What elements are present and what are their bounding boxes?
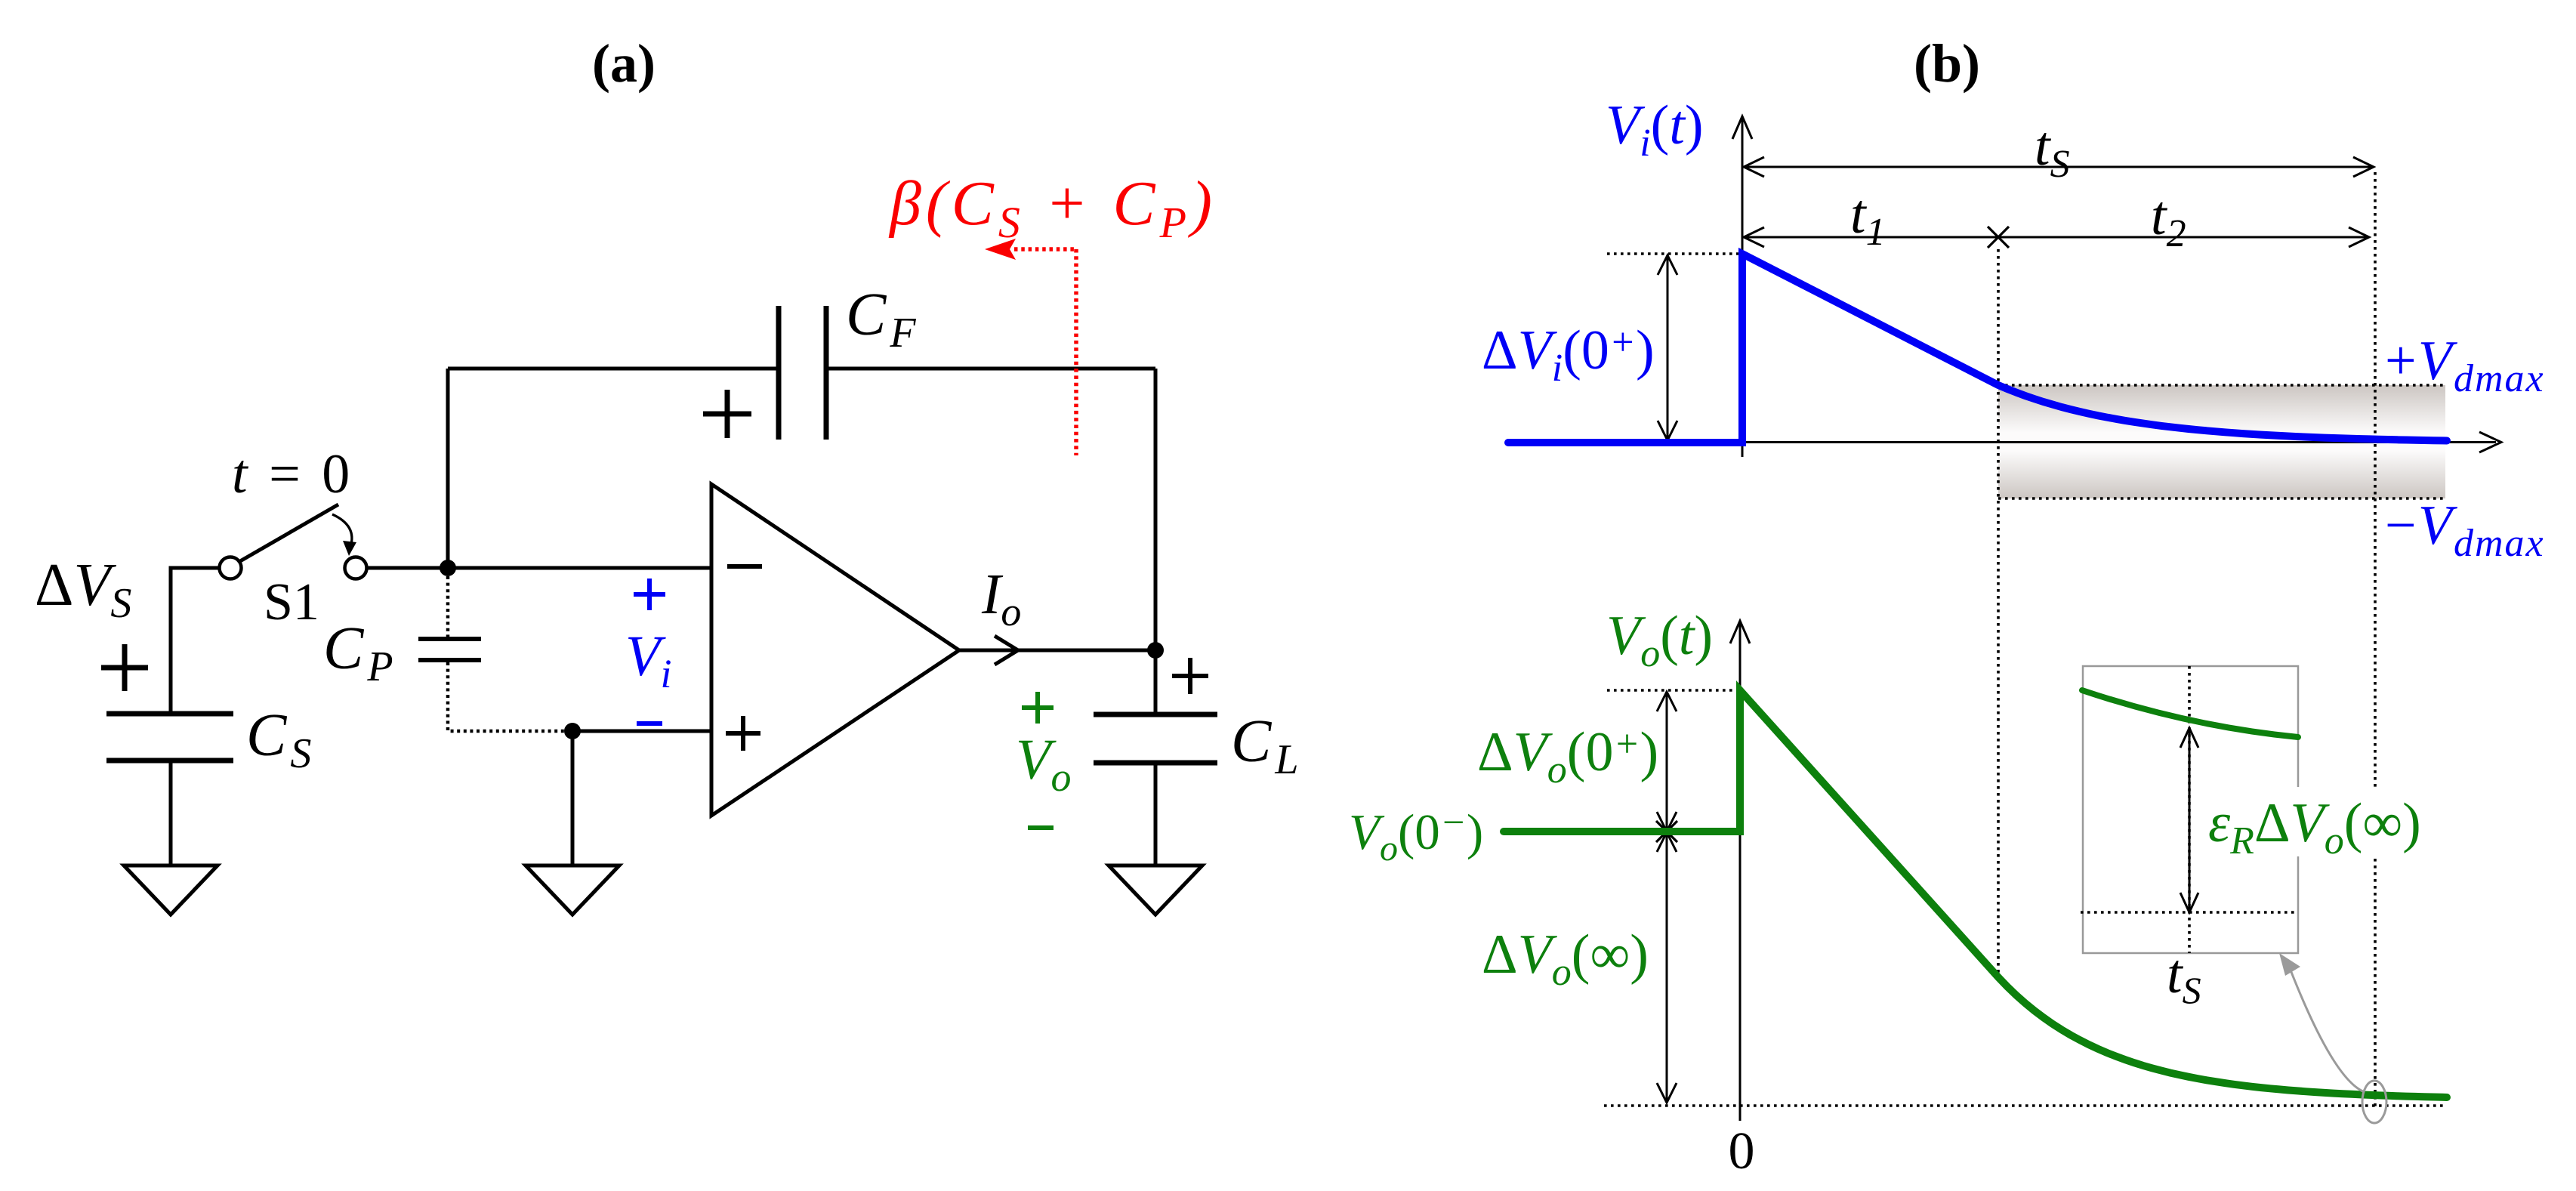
capacitor CP dotted lead top	[446, 576, 450, 637]
feedback top wire with CF	[448, 367, 1155, 371]
svg-text:−Vdmax: −Vdmax	[2385, 495, 2545, 565]
svg-text:ΔVo(0+): ΔVo(0+)	[1477, 721, 1658, 791]
CL plus sign	[1172, 658, 1208, 694]
epsilon label background	[2204, 787, 2427, 856]
svg-text:Vo: Vo	[1016, 728, 1071, 800]
svg-text:CS: CS	[246, 702, 315, 777]
ground under CL	[1109, 865, 1202, 915]
output node dot	[1147, 642, 1164, 659]
CF plus sign	[703, 390, 751, 438]
green waveform	[1504, 690, 2447, 1097]
top y axis	[1741, 119, 1744, 457]
svg-text:Vo(t): Vo(t)	[1606, 605, 1713, 675]
svg-text:(a): (a)	[592, 33, 656, 94]
t1 dimension arrow	[1745, 236, 2368, 239]
switch closing arrow	[332, 514, 352, 547]
blue waveform	[1508, 254, 2447, 443]
switch S1 arm	[240, 504, 338, 561]
capacitor CP plates	[418, 639, 481, 660]
dotted vertical at tS	[2374, 172, 2377, 1109]
svg-text:t = 0: t = 0	[232, 443, 353, 505]
plus sign of source	[101, 644, 148, 691]
svg-text:+Vdmax: +Vdmax	[2385, 330, 2545, 400]
svg-text:Vo(0−): Vo(0−)	[1349, 801, 1483, 869]
feedback right wire down	[1154, 369, 1158, 650]
gray band	[1998, 385, 2445, 498]
svg-text:ΔVo(∞): ΔVo(∞)	[1482, 924, 1649, 994]
op-amp minus input mark	[727, 564, 762, 569]
baseline dotted	[1604, 1104, 2445, 1107]
svg-text:CF: CF	[846, 282, 920, 356]
red dotted arrow	[1014, 249, 1076, 455]
-Vdmax dotted line	[1998, 497, 2445, 500]
svg-text:t2: t2	[2151, 185, 2186, 255]
inset green curve	[2082, 690, 2298, 737]
capacitor CS plates	[106, 714, 233, 761]
ground under node B	[526, 865, 619, 915]
inset box	[2083, 666, 2298, 953]
svg-text:CL: CL	[1231, 708, 1303, 783]
dVi dimension arrow	[1667, 257, 1669, 438]
wire node B to ground	[571, 731, 575, 865]
wire CL to ground	[1154, 763, 1158, 865]
svg-text:Io: Io	[981, 563, 1021, 634]
capacitor CS top wire	[169, 568, 173, 713]
svg-text:t1: t1	[1850, 184, 1886, 254]
inset dotted vertical	[2188, 666, 2191, 953]
ground under CS	[124, 865, 217, 915]
inset dimension arrow	[2189, 730, 2191, 909]
inset dotted horizontal	[2081, 911, 2296, 914]
svg-text:ΔVS: ΔVS	[35, 552, 131, 627]
capacitor CP dotted lead bottom	[448, 662, 564, 731]
svg-text:(b): (b)	[1914, 33, 1980, 94]
svg-text:0: 0	[1729, 1122, 1755, 1180]
svg-text:tS: tS	[2035, 116, 2070, 186]
svg-text:Vi(t): Vi(t)	[1606, 94, 1704, 165]
top x axis	[1742, 441, 2496, 443]
dVo(0+) dimension arrow	[1666, 693, 1668, 829]
tS dimension arrow	[1745, 166, 2372, 168]
gray magnify arrow	[2290, 968, 2365, 1092]
switch S1 right contact	[345, 557, 367, 579]
node B junction dot	[564, 723, 581, 739]
bottom y axis	[1739, 624, 1741, 1121]
peak dotted level	[1607, 252, 1742, 255]
wire node to CL	[1154, 650, 1158, 714]
wire CS to ground	[169, 761, 173, 865]
op-amp U1	[711, 484, 959, 816]
peak dotted level bottom	[1607, 689, 1740, 692]
op-amp plus input mark	[726, 716, 760, 751]
x mark at t1	[1988, 227, 2009, 248]
output wire	[959, 649, 1155, 653]
dVo(inf) dimension arrow	[1666, 834, 1668, 1101]
gray ellipse	[2362, 1081, 2386, 1123]
green Vo annotation	[1022, 692, 1054, 724]
svg-text:CP: CP	[323, 616, 397, 690]
dotted vertical at t1	[1997, 249, 2000, 979]
x mark on Vo(0-)	[1656, 821, 1677, 842]
capacitor CF plates	[779, 306, 826, 440]
wire switch to node A	[367, 566, 711, 570]
blue Vi annotation	[634, 579, 665, 610]
node A junction dot	[440, 560, 456, 576]
wire node B to op-amp + input	[572, 730, 711, 733]
svg-text:Vi: Vi	[625, 625, 671, 696]
svg-text:ΔVi(0+): ΔVi(0+)	[1482, 319, 1655, 390]
svg-text:β(CS + CP): β(CS + CP)	[888, 168, 1217, 247]
Io arrow chevron	[995, 636, 1018, 665]
svg-text:S1: S1	[264, 573, 319, 631]
wire source top to switch	[171, 568, 218, 713]
+Vdmax dotted line	[1998, 384, 2445, 387]
switch S1 left contact	[220, 557, 242, 579]
capacitor CL plates	[1094, 714, 1217, 763]
wire node A up to feedback	[446, 369, 450, 568]
